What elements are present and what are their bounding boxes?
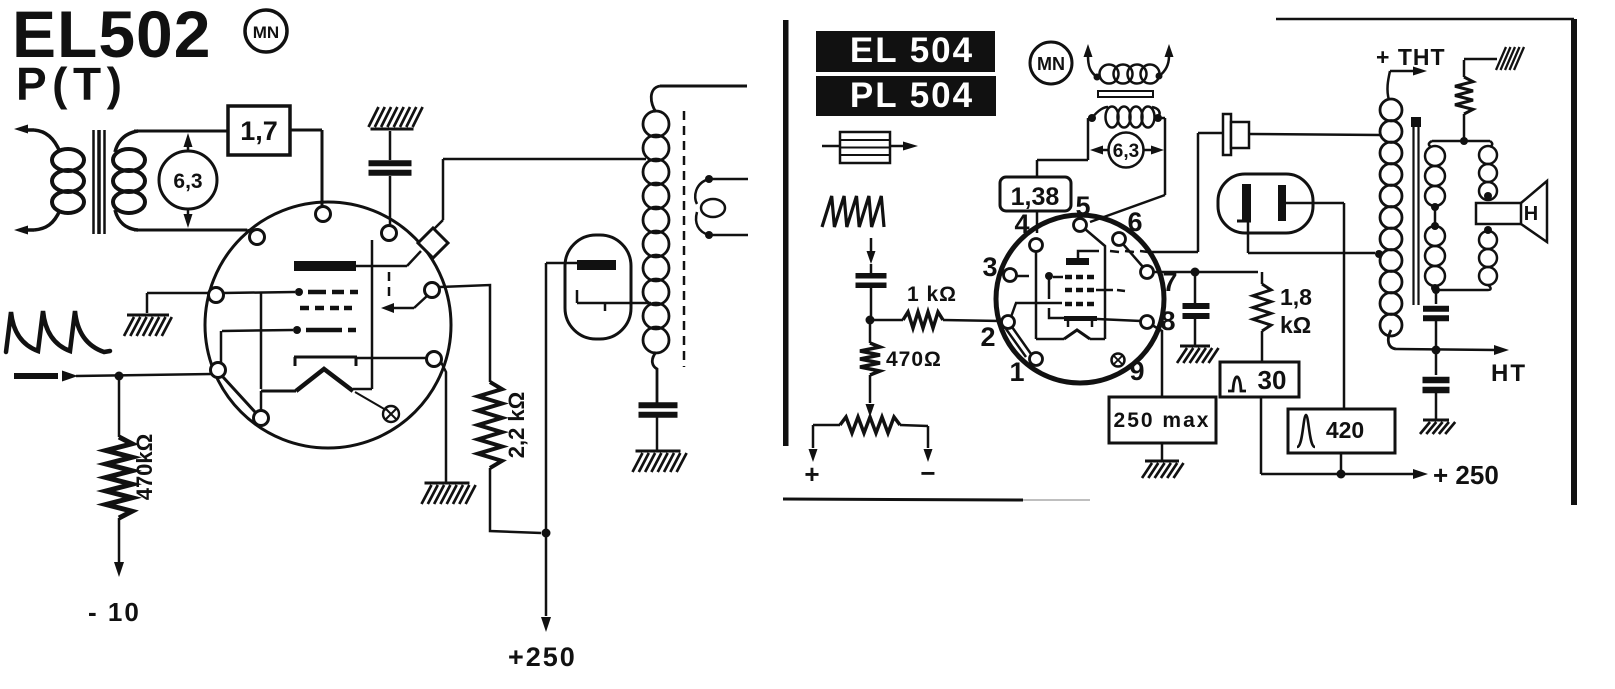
svg-text:kΩ: kΩ [1280, 312, 1311, 338]
svg-text:HT: HT [1491, 360, 1527, 387]
svg-text:H: H [1524, 203, 1538, 225]
svg-text:P(T): P(T) [16, 58, 127, 110]
svg-text:−: − [920, 458, 935, 488]
svg-text:1 kΩ: 1 kΩ [907, 283, 957, 306]
svg-text:2,2 kΩ: 2,2 kΩ [504, 392, 529, 459]
svg-text:MN: MN [1037, 54, 1065, 74]
svg-text:1,38: 1,38 [1011, 183, 1060, 211]
svg-text:6,3: 6,3 [173, 170, 202, 193]
svg-text:+ 250: + 250 [1433, 460, 1499, 490]
svg-text:5: 5 [1075, 191, 1090, 221]
svg-text:6: 6 [1127, 207, 1142, 237]
svg-text:PL 504: PL 504 [850, 76, 974, 115]
svg-text:6,3: 6,3 [1113, 141, 1139, 162]
svg-text:470Ω: 470Ω [886, 348, 942, 371]
svg-text:EL 504: EL 504 [850, 31, 974, 70]
svg-text:- 10: - 10 [88, 597, 141, 627]
svg-text:1,8: 1,8 [1280, 284, 1312, 310]
svg-text:1,7: 1,7 [240, 116, 278, 146]
svg-text:470kΩ: 470kΩ [132, 434, 157, 501]
svg-text:+250: +250 [508, 642, 577, 672]
svg-text:30: 30 [1258, 365, 1287, 395]
svg-text:2: 2 [980, 322, 995, 352]
svg-text:3: 3 [982, 252, 997, 282]
svg-text:1: 1 [1009, 357, 1024, 387]
svg-text:+ THT: + THT [1376, 44, 1446, 70]
svg-text:+: + [804, 459, 819, 489]
svg-text:250 max: 250 max [1114, 409, 1211, 432]
svg-text:4: 4 [1014, 209, 1029, 239]
svg-text:9: 9 [1129, 356, 1144, 386]
svg-text:MN: MN [253, 23, 279, 42]
svg-text:420: 420 [1326, 417, 1364, 443]
